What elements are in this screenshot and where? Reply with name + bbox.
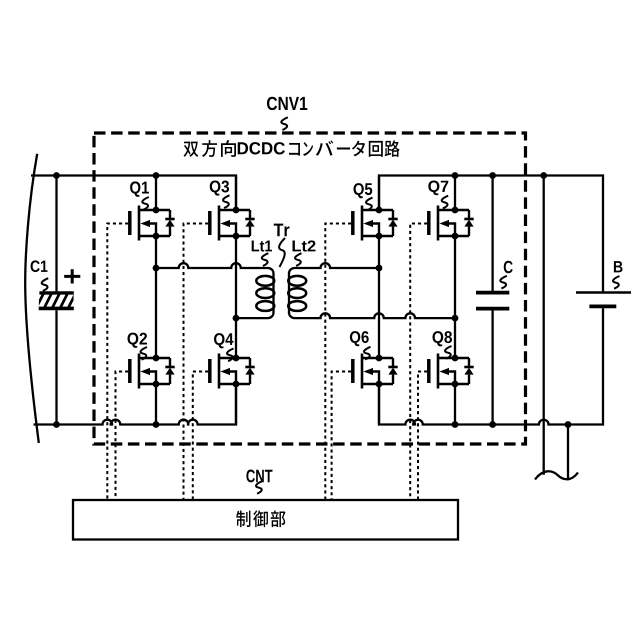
inductor winding Lt2	[288, 276, 306, 311]
label Lt1	[252, 240, 272, 251]
gate control line Q2 to CNT	[116, 372, 129, 501]
leader C	[500, 276, 506, 289]
transistor Q4 (N-MOSFET with body diode)	[210, 354, 255, 389]
gate control line Q1 to CNT	[107, 224, 128, 501]
wire Q7Q8 midpoint leg	[454, 236, 456, 358]
converter boundary box CNV1	[94, 133, 526, 444]
wire right bottom rail	[379, 308, 603, 424]
wire Lt2 winding spine	[288, 273, 290, 314]
transistor Q8 (N-MOSFET with body diode)	[429, 354, 474, 389]
text: control unit	[236, 510, 285, 527]
node A phase left	[153, 265, 160, 272]
leader CNT	[256, 481, 262, 494]
leader Q5	[366, 198, 372, 211]
wire Q3Q4 source to bottom rail	[235, 384, 237, 425]
wire external terminal 1	[543, 176, 545, 475]
node C phase right	[376, 265, 383, 272]
node C bottom rail	[489, 421, 496, 428]
wire Q5Q6 source to bottom rail	[378, 384, 380, 425]
wire Q7Q8 source to bottom rail	[454, 384, 456, 425]
label CNT	[246, 470, 272, 483]
capacitor C	[476, 293, 509, 309]
capacitor C1 (polarized, hatched plate)	[37, 293, 76, 309]
leader CNV1	[281, 117, 287, 130]
leader Q7	[442, 196, 448, 209]
node C1 bottom rail	[53, 421, 60, 428]
node terminal2 bottom rail	[565, 421, 572, 428]
gate control line Q3 to CNT	[184, 224, 209, 501]
wire C top lead	[491, 176, 493, 292]
leader Q6	[364, 347, 370, 360]
wire Lt2 top lead	[289, 263, 379, 273]
wire left bottom rail	[34, 385, 237, 425]
wire Q1Q2 midpoint leg	[155, 236, 157, 358]
gate control line Q8 to CNT	[418, 372, 427, 501]
node Q8 source rail	[452, 421, 459, 428]
label Q7	[428, 181, 448, 196]
label Tr	[274, 224, 290, 237]
leader Q8	[445, 346, 451, 359]
wire left top rail	[31, 176, 236, 211]
label Q5	[353, 183, 372, 198]
node terminal1 top rail	[540, 172, 547, 179]
gate control line Q7 to CNT	[410, 224, 427, 501]
node B phase left	[233, 315, 240, 322]
wire Q3Q4 midpoint leg	[235, 236, 237, 358]
leader Q2	[141, 347, 147, 360]
label C1	[31, 260, 48, 272]
wire Q1Q2 drain to top rail	[155, 176, 157, 211]
leader Q4	[227, 349, 233, 362]
wire C bottom lead	[491, 310, 493, 424]
leader Q3	[223, 195, 229, 208]
leader B	[613, 276, 619, 289]
control unit box (CNT)	[73, 500, 458, 540]
leader C1	[42, 278, 48, 291]
bottom break line	[535, 471, 578, 479]
leader Q1	[142, 197, 148, 210]
title: bidirectional DCDC converter circuit	[183, 140, 399, 157]
label Q3	[210, 181, 229, 196]
label DCDC in title	[238, 142, 285, 154]
leader Lt2	[295, 253, 301, 266]
transistor Q2 (N-MOSFET with body diode)	[130, 354, 175, 389]
label Q8	[433, 331, 453, 346]
label CNV1	[267, 97, 307, 110]
wire Q3Q4 drain to top rail	[235, 176, 237, 211]
wire Lt1 top lead	[156, 263, 274, 318]
node D phase right	[452, 315, 459, 322]
wire Q1Q2 source to bottom rail	[155, 384, 157, 425]
gate control line Q4 to CNT	[193, 372, 208, 501]
transistor Q3 (N-MOSFET with body diode)	[210, 206, 255, 241]
wire right top rail	[379, 176, 603, 292]
label Q1	[130, 181, 149, 196]
gate control line Q6 to CNT	[332, 372, 352, 501]
wire Lt2 bottom lead	[289, 313, 455, 319]
plus sign of C1	[64, 269, 80, 283]
node C1 top rail	[53, 172, 60, 179]
transistor Q5 (N-MOSFET with body diode)	[353, 206, 398, 241]
transistor Q7 (N-MOSFET with body diode)	[429, 206, 474, 241]
left break line	[25, 154, 39, 443]
label Lt2	[293, 240, 316, 251]
wire Q5Q6 midpoint leg	[378, 236, 380, 358]
label Q6	[350, 331, 369, 346]
node Q2 source rail	[153, 421, 160, 428]
leader Tr	[279, 238, 285, 267]
inductor winding Lt1	[256, 276, 274, 311]
label C	[504, 261, 513, 274]
node Q7 drain rail	[452, 172, 459, 179]
node Q1 drain rail	[153, 172, 160, 179]
wire Q5Q6 drain to top rail	[378, 176, 380, 211]
transistor Q6 (N-MOSFET with body diode)	[353, 354, 398, 389]
label B	[614, 261, 623, 272]
battery B	[576, 293, 631, 307]
wire Q7Q8 drain to top rail	[454, 176, 456, 211]
transistor Q1 (N-MOSFET with body diode)	[130, 206, 175, 241]
wire C1 bottom lead	[55, 310, 57, 424]
gate control line Q5 to CNT	[325, 224, 351, 501]
leader Lt1	[262, 253, 268, 266]
wire C1 top lead	[55, 176, 57, 292]
wire external terminal 2	[567, 425, 569, 481]
label Q2	[127, 333, 146, 348]
label Q4	[214, 333, 234, 348]
node C top rail	[489, 172, 496, 179]
